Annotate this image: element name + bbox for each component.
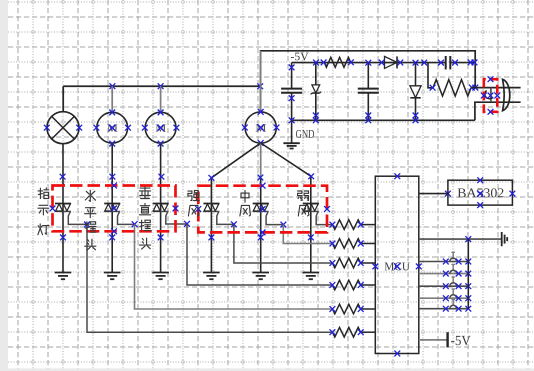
key S5	[419, 300, 471, 312]
wire plug upper prong	[471, 87, 521, 89]
wire gate Q5 route	[266, 211, 332, 243]
label indicator-lamp	[38, 188, 49, 235]
diode D2	[379, 56, 404, 68]
wire plug lower prong	[475, 102, 521, 120]
power -5V mcu	[419, 332, 471, 347]
resistor R6	[330, 327, 376, 337]
wire mcu to BA5302	[419, 191, 451, 197]
zener D1	[311, 60, 321, 121]
capacitor C3	[438, 56, 458, 69]
wire fan tap mid	[260, 143, 262, 273]
resistor R7	[321, 57, 354, 67]
wire fan tap weak	[261, 143, 311, 273]
node channel 6 lower	[308, 235, 314, 241]
triac Q3 vert-swing	[153, 204, 169, 212]
ic BA5302	[448, 177, 515, 208]
node channel 5 upper	[258, 175, 264, 181]
wire M1 cathode	[111, 144, 113, 273]
node channel 1 upper	[60, 174, 66, 180]
node channel 6 upper	[308, 173, 314, 179]
highlight box plug handles	[481, 76, 500, 114]
ground channel 1	[55, 273, 72, 280]
node channel 3 lower	[158, 235, 164, 241]
wire fan tap strong	[211, 143, 260, 273]
node channel 4 lower	[209, 235, 215, 241]
key S2	[419, 264, 471, 276]
wire top bus	[63, 86, 260, 112]
label -5V rail	[291, 53, 309, 61]
label weak-wind	[298, 191, 309, 216]
wire -5V feed top	[261, 51, 476, 112]
resistor R2	[330, 239, 376, 249]
node bus M2 tap	[158, 83, 164, 89]
ground right	[502, 232, 508, 246]
highlight box left handles	[50, 183, 179, 235]
node channel 2 lower	[109, 235, 115, 241]
label strong-wind	[188, 191, 199, 216]
diode D3	[410, 60, 421, 121]
node channel 4 upper	[209, 175, 215, 181]
plug P1	[503, 79, 510, 110]
highlight box plug	[484, 79, 498, 112]
node channel 1 lower	[60, 235, 66, 241]
wire R8 branch	[428, 63, 433, 88]
resistor R5	[330, 304, 376, 314]
ground channel 4	[203, 273, 220, 280]
lamp DS1	[44, 112, 82, 144]
motor M2	[142, 86, 179, 146]
highlight box right group	[198, 186, 327, 233]
label horiz-swing	[85, 190, 96, 250]
capacitor C1	[281, 63, 302, 121]
wire bottom rail	[289, 117, 475, 123]
resistor R1	[330, 220, 376, 230]
label GND	[296, 130, 314, 138]
resistor R8	[430, 80, 479, 96]
wire M2 cathode	[160, 144, 162, 273]
key S1	[419, 252, 471, 264]
key S3	[419, 277, 471, 289]
triac Q2 horiz-swing	[104, 204, 120, 212]
node bus M1 tap	[110, 83, 116, 89]
node rail end	[468, 60, 478, 66]
node channel 2 upper	[110, 174, 116, 180]
junction bus/feed	[257, 83, 263, 89]
motor M1	[94, 86, 131, 146]
label mid-wind	[240, 191, 251, 216]
wire gate Q2 route	[118, 211, 333, 309]
ground GND	[283, 120, 299, 148]
wire gate Q6 route	[316, 211, 332, 224]
capacitor C2	[358, 60, 379, 121]
node channel 3 upper	[159, 174, 165, 180]
resistor R3	[330, 258, 376, 268]
highlight box right handles	[195, 183, 330, 236]
highlight box left group	[53, 186, 176, 232]
power rail -5V	[292, 62, 475, 64]
triac Q4 strong	[203, 204, 219, 212]
wire lamp cathode	[62, 144, 64, 273]
triac Q1 indicator	[55, 204, 71, 212]
key S4	[419, 289, 471, 301]
motor M3 fan	[242, 51, 280, 146]
ground channel 6	[303, 273, 320, 280]
ground channel 5	[252, 273, 269, 280]
mcu U1	[372, 173, 421, 356]
wire gate Q4 route	[217, 211, 333, 263]
label vert-swing	[139, 187, 150, 249]
wire mcu gnd pin	[419, 236, 502, 242]
node channel 5 lower	[258, 235, 264, 241]
node rail split	[421, 60, 427, 66]
wire key bus	[467, 239, 469, 309]
wire gate Q3 route	[166, 211, 333, 285]
connector fuse bar	[485, 88, 493, 103]
ground channel 2	[104, 273, 121, 280]
triac Q5 mid	[253, 204, 269, 212]
ground channel 3	[152, 273, 169, 280]
wire gate Q1 route	[68, 211, 332, 332]
resistor R4	[330, 280, 376, 290]
triac Q6 weak	[303, 204, 319, 212]
